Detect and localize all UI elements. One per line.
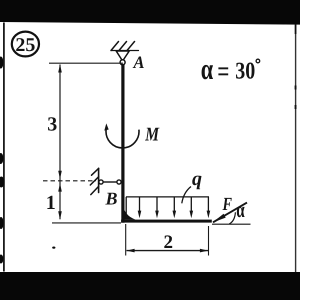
svg-text:25: 25 [15,35,35,56]
svg-text:3: 3 [47,114,57,136]
svg-text:α: α [201,53,214,86]
svg-text:A: A [133,52,145,72]
svg-text:B: B [105,188,118,208]
svg-text:1: 1 [46,192,56,214]
svg-text:F: F [222,195,233,215]
svg-text:α: α [236,197,245,222]
svg-text:30: 30 [235,58,255,84]
svg-text:M: M [145,124,160,145]
svg-text:q: q [192,168,202,190]
svg-text:2: 2 [164,232,174,253]
